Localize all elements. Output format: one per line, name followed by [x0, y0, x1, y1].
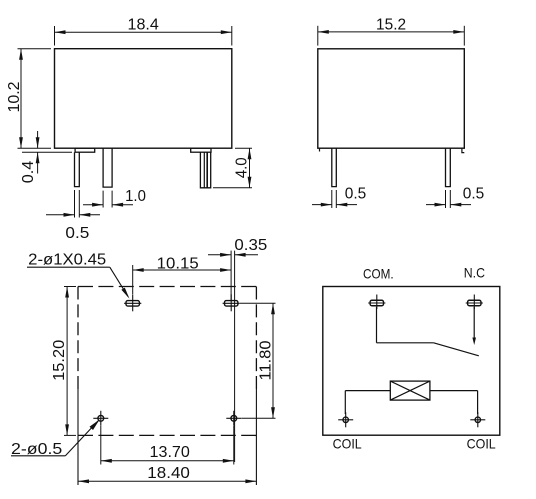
schematic coil left wire	[345, 390, 390, 392]
front view dim 1.0 extension lines	[102, 191, 104, 208]
svg-text:10.2: 10.2	[6, 82, 23, 113]
front view dim 4.0 dimension line	[249, 148, 251, 188]
front view dim 18.4 extension lines	[54, 26, 56, 46]
bottom view hole slot top-left	[126, 301, 139, 307]
front view pin 3 shoulder	[191, 148, 211, 152]
front view dim 10.2 extension lines	[18, 48, 52, 50]
front view dim 0.5 extension lines	[74, 190, 76, 218]
side view left pin	[332, 148, 337, 186]
bottom view hole round bottom-right	[231, 415, 237, 421]
bottom view outline dashed bottom edge	[78, 434, 256, 436]
schematic terminal NC	[468, 300, 481, 306]
side view left pin dim 0.5 arrows	[312, 204, 332, 206]
svg-text:2-ø0.5: 2-ø0.5	[11, 441, 62, 458]
front view dim 10.2 dimension line	[20, 49, 22, 149]
bottom view hole round bottom-left	[98, 415, 104, 421]
front view dim 0.5 arrows	[46, 214, 75, 216]
schematic wire COM down	[376, 307, 378, 343]
svg-text:18.4: 18.4	[128, 17, 160, 34]
bottom view dim 11.80 dimension line	[272, 303, 274, 418]
svg-text:0.5: 0.5	[463, 186, 485, 203]
bottom view dim 10.15 dimension line	[133, 269, 231, 271]
side view left pin dim 0.5 extension lines	[331, 190, 333, 208]
schematic coil X diagonal 2	[390, 381, 430, 400]
svg-text:N.C: N.C	[464, 265, 485, 281]
svg-text:15.2: 15.2	[376, 17, 406, 34]
front view dim 4.0 extension lines	[235, 147, 252, 149]
svg-text:4.0: 4.0	[234, 157, 251, 178]
schematic wire NC down with arrow	[473, 307, 475, 342]
bottom view hole slot top-right	[225, 301, 238, 307]
svg-text:18.40: 18.40	[147, 465, 190, 482]
schematic terminal COM	[370, 300, 383, 306]
svg-text:0.5: 0.5	[345, 186, 367, 203]
label 2-o1X0.45 leader	[27, 266, 110, 268]
side view left corner notch	[319, 148, 321, 151]
schematic coil right wire	[430, 390, 478, 392]
side view right pin dim 0.5 arrows	[426, 204, 446, 206]
side view right corner notch	[462, 148, 464, 152]
svg-text:15.20: 15.20	[51, 339, 68, 380]
side view dim 15.2 extension lines	[317, 26, 319, 46]
front view dim 0.4 extension line	[22, 151, 72, 153]
svg-text:2-ø1X0.45: 2-ø1X0.45	[28, 251, 106, 268]
front view dim 1.0 arrows	[83, 204, 103, 206]
front view relay body outline	[55, 49, 232, 149]
bottom view dim 18.40 dimension line	[78, 480, 256, 482]
bottom view dim 11.80 extension lines	[240, 302, 276, 304]
bottom view dim 0.35 arrows	[208, 254, 231, 256]
svg-text:COIL: COIL	[333, 435, 362, 451]
front view pin 1	[75, 152, 80, 186]
side view dim 15.2 dimension line	[318, 31, 465, 33]
schematic switch common wire	[377, 342, 434, 344]
schematic coil X diagonal 1	[390, 381, 430, 400]
schematic box	[323, 287, 500, 436]
svg-text:10.15: 10.15	[157, 255, 199, 272]
svg-text:0.35: 0.35	[234, 237, 267, 254]
schematic coil left terminal	[343, 417, 348, 422]
bottom view dim 15.20 dimension line	[66, 287, 68, 436]
front view pin 1 shoulder	[75, 148, 95, 152]
bottom view dim 0.35 extension lines	[230, 251, 232, 300]
bottom view dim 13.70 extension lines	[100, 426, 102, 465]
front view pin 2	[103, 148, 112, 187]
svg-text:0.4: 0.4	[20, 160, 37, 183]
schematic switch moving contact	[434, 343, 479, 356]
bottom view outline dashed left edge	[77, 287, 79, 390]
svg-text:13.70: 13.70	[150, 444, 191, 461]
svg-text:11.80: 11.80	[257, 340, 274, 380]
side view relay body outline	[318, 49, 465, 148]
label 2-o0.5 leader	[11, 455, 65, 457]
bottom view outline dashed top edge	[78, 286, 256, 288]
side view right pin dim 0.5 extension lines	[445, 190, 447, 208]
front view dim 0.4 arrows	[37, 131, 39, 148]
svg-text:COM.: COM.	[363, 266, 394, 282]
bottom view dim 18.40 extension lines	[77, 389, 79, 485]
bottom view outline dashed right edge	[255, 287, 257, 390]
schematic coil right terminal	[475, 417, 480, 422]
schematic coil box	[390, 381, 430, 400]
svg-text:0.5: 0.5	[65, 225, 89, 242]
front view dim 18.4 dimension line	[55, 31, 232, 33]
side view right pin	[446, 148, 451, 186]
svg-text:1.0: 1.0	[125, 188, 146, 205]
bottom view dim 15.20 extension lines	[64, 286, 76, 288]
bottom view dim 10.15 extension lines	[132, 265, 134, 294]
svg-text:COIL: COIL	[467, 435, 496, 451]
front view pin 3 body	[200, 152, 210, 188]
bottom view dim 13.70 dimension line	[101, 460, 234, 462]
